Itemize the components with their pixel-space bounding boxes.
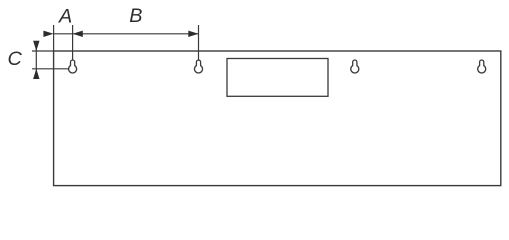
extension line: keyhole 2 centerline	[198, 25, 200, 61]
dimension line A-B	[54, 33, 199, 35]
cutout rectangle	[227, 59, 328, 97]
arrowhead B right (pointing right)	[188, 31, 198, 37]
arrowhead A left (outside, pointing right)	[43, 31, 53, 37]
arrowhead C bottom (outside, pointing up)	[33, 69, 39, 79]
svg-text:C: C	[8, 48, 23, 70]
dimension line C	[35, 41, 37, 79]
arrowhead B left (pointing left)	[73, 31, 83, 37]
keyhole slot 1	[69, 60, 77, 73]
keyhole slot 3	[351, 60, 359, 73]
extension line: keyhole 1 center horizontal (C lower)	[32, 68, 69, 70]
svg-text:A: A	[58, 6, 72, 28]
extension line: panel left edge up to dimension A	[53, 25, 55, 51]
arrowhead C top (outside, pointing down)	[33, 41, 39, 51]
svg-text:B: B	[129, 5, 142, 27]
keyhole slot 2	[195, 60, 203, 73]
panel outline	[54, 51, 501, 186]
extension line: keyhole 1 centerline	[72, 25, 74, 60]
extension line: panel top edge extended left (C upper)	[32, 50, 54, 52]
keyhole slot 4	[478, 60, 486, 73]
